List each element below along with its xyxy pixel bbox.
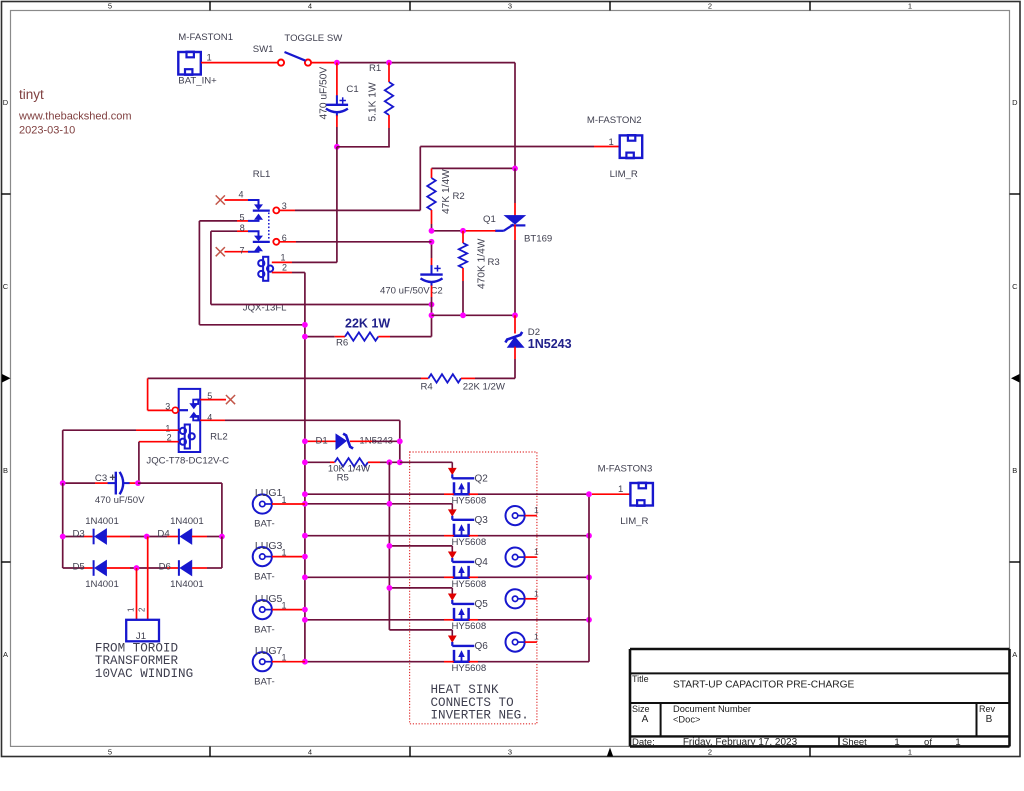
svg-text:START-UP CAPACITOR PRE-CHARGE: START-UP CAPACITOR PRE-CHARGE <box>673 680 855 691</box>
svg-text:Q3: Q3 <box>475 515 489 526</box>
svg-text:1: 1 <box>534 547 539 557</box>
svg-text:C: C <box>1012 282 1018 291</box>
svg-text:Q4: Q4 <box>475 557 489 568</box>
svg-text:D: D <box>3 98 9 107</box>
svg-text:J1: J1 <box>136 631 146 642</box>
svg-text:TOGGLE SW: TOGGLE SW <box>284 33 343 44</box>
note 2023-03-10 <box>19 125 75 137</box>
junction source row Q3 at left bus <box>302 533 308 539</box>
junction C1 bottom <box>334 144 340 150</box>
svg-text:D3: D3 <box>73 529 85 540</box>
svg-text:470 uF/50V: 470 uF/50V <box>319 67 330 120</box>
wire D2 bottom stub <box>514 347 516 379</box>
svg-text:1: 1 <box>894 737 899 748</box>
svg-text:1: 1 <box>534 505 539 515</box>
svg-text:R4: R4 <box>421 382 434 393</box>
wire C3 row to right column <box>138 483 222 536</box>
junction y315 at R3 <box>460 312 466 318</box>
wire BAT_IN+ to SW1 <box>201 62 278 64</box>
transistor Q3 HY5608 <box>448 504 488 548</box>
junction LUG3 at bus <box>302 554 308 560</box>
title block Date row <box>632 737 961 748</box>
junction source row at right bus <box>586 574 592 580</box>
wire R3 top stub <box>462 231 464 243</box>
resistor R2 <box>427 169 464 214</box>
wire D1 left stub <box>305 440 336 442</box>
title block Title row <box>632 674 855 691</box>
svg-text:1: 1 <box>908 2 912 11</box>
svg-text:R6: R6 <box>336 338 348 349</box>
svg-text:1: 1 <box>609 137 614 148</box>
title block Size row <box>632 704 996 725</box>
svg-text:2: 2 <box>138 607 147 612</box>
junction D1 right <box>397 438 403 444</box>
diode D5 1N4001 <box>73 560 119 590</box>
svg-text:B: B <box>3 466 8 475</box>
svg-text:5: 5 <box>240 212 245 222</box>
svg-text:3: 3 <box>282 201 287 211</box>
resistor R3 <box>459 238 500 289</box>
junction bridge mid bottom <box>134 565 140 571</box>
svg-text:M-FASTON1: M-FASTON1 <box>178 32 233 43</box>
svg-text:Q2: Q2 <box>475 474 489 485</box>
wire right bus x589 <box>588 494 590 662</box>
junction gate row at R3 <box>460 228 466 234</box>
lug LUG5 BAT- <box>253 593 305 636</box>
resistor R1 <box>368 63 394 122</box>
svg-text:3: 3 <box>508 2 512 11</box>
svg-text:Title: Title <box>632 674 649 684</box>
switch SW1 TOGGLE SW <box>253 33 344 66</box>
diode D4 1N4001 <box>157 516 203 545</box>
svg-text:2: 2 <box>282 262 287 272</box>
wire RL1 pin5 vertical <box>199 221 305 325</box>
svg-text:A: A <box>3 650 8 659</box>
wire D6 right stub <box>192 537 222 569</box>
zener D2 1N5243 <box>505 327 571 351</box>
wire J1 pin2 <box>147 537 149 620</box>
junction R2 row at x515 <box>512 166 518 172</box>
wire drain bus x389 <box>388 462 390 630</box>
wire RL1 pin3 run <box>280 147 620 211</box>
svg-text:HY5608: HY5608 <box>452 621 487 632</box>
wire C2 bottom stub <box>431 286 433 305</box>
junction top rail at R1 <box>386 60 392 66</box>
wire D5-D6 middle <box>107 567 179 569</box>
title block box <box>630 649 1010 746</box>
junction pin5 row at bus <box>302 322 308 328</box>
svg-text:1: 1 <box>534 588 539 598</box>
svg-text:Date:: Date: <box>632 737 655 748</box>
svg-text:B: B <box>986 714 993 725</box>
junction R5 at gate bus <box>387 459 393 465</box>
wire R5 left <box>305 461 335 463</box>
wire RL1 coil pin2 <box>272 272 305 274</box>
svg-text:Document Number: Document Number <box>673 704 751 714</box>
svg-text:Friday, February 17, 2023: Friday, February 17, 2023 <box>683 737 798 748</box>
note FROM TOROID TRANSFORMER 10VAC WINDING <box>95 641 193 680</box>
junction pin8 row at C2 <box>429 302 435 308</box>
wire Q6 drain feed <box>389 629 452 631</box>
connector M-FASTON1 <box>178 32 233 87</box>
wire RL2 pin1 run <box>63 430 179 483</box>
junction bridge mid top <box>144 534 150 540</box>
diode D3 1N4001 <box>73 516 119 545</box>
svg-text:<Doc>: <Doc> <box>673 715 700 725</box>
wire R6 left <box>305 336 345 338</box>
transistor Q4 HY5608 <box>448 546 488 590</box>
svg-text:LUG7: LUG7 <box>255 645 283 657</box>
wire C1 upper stub <box>336 63 338 96</box>
svg-text:47K 1/4W: 47K 1/4W <box>441 169 452 214</box>
junction Q4 feed at drain bus <box>387 543 393 549</box>
note www.thebackshed.com <box>18 111 132 123</box>
capacitor C2 <box>380 265 443 296</box>
junction source row at right bus <box>586 617 592 623</box>
svg-text:1: 1 <box>955 737 960 748</box>
note tinyt <box>19 87 44 102</box>
svg-text:D1: D1 <box>316 436 328 447</box>
svg-text:1N4001: 1N4001 <box>170 579 204 590</box>
wire RL1 pin6 run <box>280 241 432 243</box>
svg-text:D5: D5 <box>73 561 85 572</box>
svg-text:8: 8 <box>240 223 245 233</box>
transistor Q2 HY5608 <box>448 462 488 506</box>
wire RL2 pin2 run <box>139 442 179 483</box>
svg-text:R2: R2 <box>453 191 465 202</box>
svg-text:1: 1 <box>281 252 286 262</box>
wire C3 right stub <box>130 482 139 484</box>
svg-text:LUG3: LUG3 <box>255 540 283 552</box>
svg-text:of: of <box>924 737 932 748</box>
lug heat-sink <box>505 547 539 567</box>
svg-text:LIM_R: LIM_R <box>620 516 648 527</box>
svg-text:M-FASTON2: M-FASTON2 <box>587 115 642 126</box>
svg-text:RL1: RL1 <box>253 169 271 180</box>
wire R2 top run <box>432 168 516 178</box>
wire C1 lower stub <box>336 115 338 147</box>
wire R1 top stub <box>388 63 390 82</box>
junction Q3 feed at left bus <box>302 501 308 507</box>
junction LUG5 at bus <box>302 607 308 613</box>
wire R3 bottom stub <box>462 268 464 315</box>
wire Q4 drain feed <box>389 545 452 547</box>
svg-text:R5: R5 <box>337 472 349 483</box>
wire left bus to D3 <box>62 483 64 568</box>
wire D1 right stub <box>350 440 400 442</box>
svg-text:1N4001: 1N4001 <box>85 579 119 590</box>
junction R6 row at bus <box>302 334 308 340</box>
junction y315 at D2 <box>512 312 518 318</box>
svg-text:HY5608: HY5608 <box>452 496 487 507</box>
wire D5 left stub <box>63 567 93 569</box>
svg-text:BAT_IN+: BAT_IN+ <box>178 76 217 87</box>
junction C3 left <box>60 480 66 486</box>
relay RL2 JQC-T78-DC12V-C <box>146 389 229 467</box>
resistor R6 22K 1W <box>336 317 390 349</box>
wire source row Q6 <box>305 661 589 663</box>
junction y315 row at C2 column <box>429 312 435 318</box>
svg-text:22K 1/2W: 22K 1/2W <box>463 382 506 393</box>
wire RL2 pin3 <box>148 378 173 410</box>
transistor Q6 HY5608 <box>448 630 488 674</box>
svg-text:2023-03-10: 2023-03-10 <box>19 125 75 137</box>
svg-text:A: A <box>1012 650 1017 659</box>
svg-text:1: 1 <box>534 632 539 642</box>
lug heat-sink <box>505 632 539 652</box>
svg-text:470 uF/50V: 470 uF/50V <box>380 286 430 297</box>
svg-text:INVERTER NEG.: INVERTER NEG. <box>431 709 529 723</box>
lug LUG7 BAT- <box>253 645 305 688</box>
svg-text:2: 2 <box>708 2 712 11</box>
lug LUG1 BAT- <box>253 487 305 530</box>
connector J1 <box>126 607 159 642</box>
svg-text:Size: Size <box>632 704 650 714</box>
diode D6 1N4001 <box>159 560 204 590</box>
junction source row Q4 at left bus <box>302 574 308 580</box>
svg-text:Q1: Q1 <box>483 214 496 225</box>
svg-text:10VAC WINDING: 10VAC WINDING <box>95 667 193 681</box>
wire Q3 drain feed <box>305 503 452 505</box>
junction D3 left <box>60 534 66 540</box>
svg-text:C: C <box>3 282 9 291</box>
svg-text:D4: D4 <box>157 529 170 540</box>
wire Q5 drain feed <box>389 587 452 589</box>
svg-text:Q6: Q6 <box>475 641 489 652</box>
svg-text:Q5: Q5 <box>475 599 489 610</box>
junction D4 right <box>219 534 225 540</box>
svg-text:JQC-T78-DC12V-C: JQC-T78-DC12V-C <box>146 455 229 466</box>
svg-text:HY5608: HY5608 <box>452 537 487 548</box>
relay RL1 coil JQX-13FL <box>243 252 287 313</box>
junction gate row at R2 <box>429 228 435 234</box>
svg-text:10K 1/4W: 10K 1/4W <box>328 464 371 475</box>
svg-text:www.thebackshed.com: www.thebackshed.com <box>18 111 132 123</box>
wire D3 left stub <box>63 536 93 538</box>
no-connect RL2 pin5 <box>226 395 235 404</box>
svg-text:HY5608: HY5608 <box>452 663 487 674</box>
svg-text:LUG1: LUG1 <box>255 487 283 499</box>
svg-text:D: D <box>1012 98 1018 107</box>
svg-text:RL2: RL2 <box>210 431 228 442</box>
svg-text:tinyt: tinyt <box>19 87 44 102</box>
svg-text:5.1K 1W: 5.1K 1W <box>368 82 379 121</box>
wire Q1 cathode <box>514 225 516 316</box>
relay RL1 contacts <box>199 169 286 256</box>
svg-text:4: 4 <box>308 748 312 757</box>
capacitor C1 <box>319 67 359 120</box>
svg-text:7: 7 <box>240 246 245 256</box>
wire Q1 gate row <box>432 230 496 232</box>
wire D4 right stub <box>192 536 222 538</box>
wire D3-D4 middle <box>107 536 179 538</box>
wire source row Q3 <box>305 535 589 537</box>
svg-text:BAT-: BAT- <box>254 571 275 582</box>
junction Q5 feed at drain bus <box>387 585 393 591</box>
svg-text:4: 4 <box>308 2 312 11</box>
svg-text:1: 1 <box>908 748 912 757</box>
zener D1 1N5243 <box>316 434 394 450</box>
wire SW1 to node A <box>311 62 337 64</box>
wire C3 left stub <box>63 482 108 484</box>
wire vertical x515 top <box>514 63 516 169</box>
svg-text:2: 2 <box>708 748 712 757</box>
wire R4 row left <box>148 377 429 379</box>
thyristor Q1 BT169 <box>483 214 552 245</box>
wire source row Q5 <box>305 619 589 621</box>
svg-text:1N4001: 1N4001 <box>170 516 204 527</box>
wire R5 row to Q2 drain <box>400 461 453 463</box>
wire RL2 pin4 run <box>200 420 400 462</box>
wire J1 pin1 <box>136 568 138 620</box>
note HEAT SINK CONNECTS TO INVERTER NEG. <box>431 683 529 723</box>
svg-text:R3: R3 <box>488 257 500 268</box>
connector M-FASTON3 <box>598 463 653 527</box>
wire left bus x305 <box>304 273 306 662</box>
junction R5 left <box>302 459 308 465</box>
svg-text:M-FASTON3: M-FASTON3 <box>598 463 653 474</box>
connector M-FASTON2 <box>587 115 642 180</box>
svg-text:4: 4 <box>239 190 244 200</box>
resistor R4 22K 1/2W <box>421 374 506 392</box>
junction C3 right <box>135 480 141 486</box>
svg-text:Rev: Rev <box>979 704 996 714</box>
junction R5 right <box>397 459 403 465</box>
svg-text:C3: C3 <box>95 473 107 484</box>
wire RL1 pin8 vertical <box>211 231 432 304</box>
svg-text:1: 1 <box>126 607 135 612</box>
svg-text:470K 1/4W: 470K 1/4W <box>477 238 488 289</box>
junction pin6 row end <box>429 239 435 245</box>
wire R5 right <box>368 461 400 463</box>
svg-text:BAT-: BAT- <box>254 676 275 687</box>
wire source row Q2 <box>305 493 589 495</box>
junction right bus at M-FASTON3 <box>586 491 592 497</box>
svg-text:5: 5 <box>108 2 112 11</box>
wire R4 row right <box>461 377 515 379</box>
wire R2 bottom stub <box>431 210 433 231</box>
wire C1 net down to RL1 pin1 <box>336 147 338 263</box>
lug heat-sink <box>505 505 539 525</box>
capacitor C3 <box>95 472 145 507</box>
transistor Q5 HY5608 <box>448 588 488 632</box>
junction source row Q6 at left bus <box>302 659 308 665</box>
wire C2 column to R6 <box>431 305 433 337</box>
junction source row Q5 at left bus <box>302 617 308 623</box>
svg-text:A: A <box>642 714 649 725</box>
junction top rail at C1 <box>334 60 340 66</box>
wire C1 to R1 bottom <box>337 146 390 148</box>
junction D1 left <box>302 438 308 444</box>
svg-text:1: 1 <box>618 484 623 495</box>
svg-text:C1: C1 <box>346 84 358 95</box>
svg-text:1N5243: 1N5243 <box>528 337 572 351</box>
resistor R5 10K 1/4W <box>328 458 371 483</box>
wire C2 top stub <box>431 242 433 266</box>
svg-text:B: B <box>1012 466 1017 475</box>
svg-text:470 uF/50V: 470 uF/50V <box>95 495 145 506</box>
svg-text:SW1: SW1 <box>253 44 274 55</box>
wire D2 top stub <box>514 315 516 333</box>
junction source row Q2 at left bus <box>302 491 308 497</box>
svg-text:LIM_R: LIM_R <box>610 169 638 180</box>
junction source row at right bus <box>586 533 592 539</box>
heat sink boundary (dashed) <box>410 452 537 724</box>
junction Q3 feed at drain bus <box>387 501 393 507</box>
svg-text:D6: D6 <box>159 561 171 572</box>
svg-text:BT169: BT169 <box>524 234 552 245</box>
svg-text:LUG5: LUG5 <box>255 593 283 605</box>
svg-text:3: 3 <box>508 748 512 757</box>
svg-text:BAT-: BAT- <box>254 624 275 635</box>
wire RL1 coil pin1 <box>272 261 337 263</box>
lug heat-sink <box>505 588 539 608</box>
svg-text:5: 5 <box>108 748 112 757</box>
wire source row Q4 <box>305 576 589 578</box>
wire RL2 pin5 stub <box>200 399 226 401</box>
svg-text:1N4001: 1N4001 <box>85 516 119 527</box>
svg-text:22K 1W: 22K 1W <box>345 317 390 331</box>
wire M-FASTON3 stub <box>592 493 630 495</box>
wire y315 row <box>432 314 516 316</box>
svg-text:Sheet: Sheet <box>842 737 867 748</box>
svg-text:HY5608: HY5608 <box>452 579 487 590</box>
svg-text:R1: R1 <box>369 63 381 74</box>
lug LUG3 BAT- <box>253 540 305 583</box>
wire top rail node A to corner <box>337 62 515 64</box>
wire R1 bottom stub <box>388 115 390 147</box>
svg-text:BAT-: BAT- <box>254 519 275 530</box>
wire R6 right <box>378 336 431 338</box>
wire Q1 anode stub <box>514 168 516 216</box>
